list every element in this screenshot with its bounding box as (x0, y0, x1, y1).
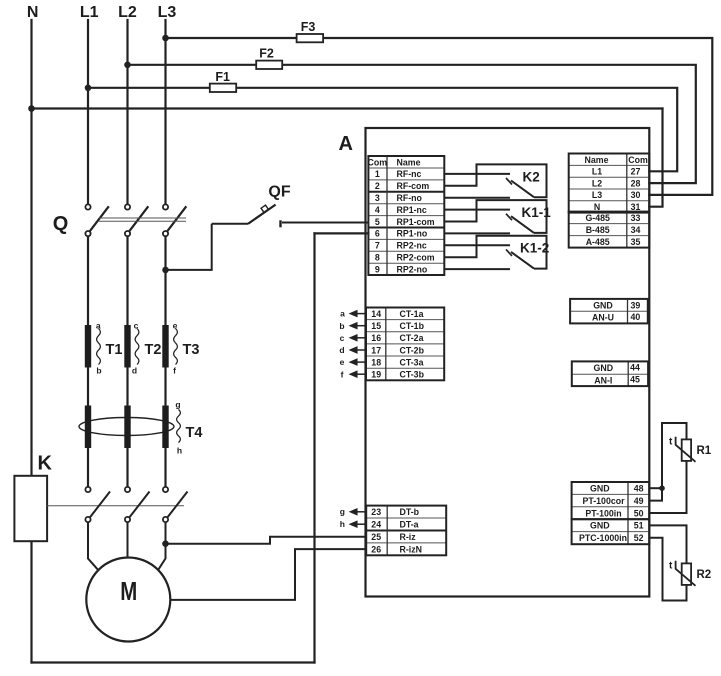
svg-text:2: 2 (375, 181, 380, 191)
DT input table 23-26 (366, 506, 446, 556)
svg-text:14: 14 (371, 309, 381, 319)
svg-text:RP2-nc: RP2-nc (397, 241, 427, 251)
wire L3 T3 to T4 (164, 368, 166, 407)
svg-text:1: 1 (375, 169, 380, 179)
svg-text:L1: L1 (80, 4, 99, 21)
svg-text:5: 5 (375, 217, 380, 227)
wire RP1-no entry (315, 232, 369, 234)
wire L2 T4 to contactor (126, 448, 128, 487)
svg-text:49: 49 (634, 496, 644, 506)
svg-text:d: d (339, 345, 344, 355)
CT T1 primary bar (85, 325, 91, 368)
svg-text:a: a (96, 321, 101, 331)
node R1 junction (659, 485, 665, 491)
fuse F3 (297, 34, 324, 42)
svg-text:T2: T2 (145, 342, 162, 358)
wire N vertical top (30, 20, 32, 476)
PT-100 terminal table 48-50 (572, 482, 650, 519)
svg-text:GND: GND (590, 521, 610, 531)
svg-text:34: 34 (631, 225, 641, 235)
svg-text:R1: R1 (697, 445, 712, 457)
svg-text:RP2-no: RP2-no (397, 264, 428, 274)
wire F1 line (88, 88, 677, 172)
fuse F1 (210, 84, 236, 92)
svg-text:L2: L2 (118, 4, 137, 21)
switch QF (212, 205, 369, 228)
wire N to terminal 31 (649, 109, 662, 207)
wire R-iz (166, 537, 367, 544)
svg-text:Com: Com (628, 155, 648, 165)
contactor contact 1 (85, 487, 110, 522)
breaker Q linkage bar (99, 218, 186, 221)
svg-text:c: c (134, 321, 139, 331)
wire contactor to motor 1 (88, 522, 98, 570)
fuse F2 (256, 61, 282, 69)
svg-text:44: 44 (630, 363, 640, 373)
svg-text:e: e (340, 357, 345, 367)
mains terminal table 27-31 (569, 154, 650, 213)
svg-text:R-izN: R-izN (400, 544, 422, 554)
RS-485 terminal table 33-35 (569, 212, 650, 248)
contactor K coil box (14, 476, 47, 541)
svg-text:30: 30 (631, 190, 641, 200)
CT T4 bar 2 (124, 406, 130, 449)
svg-text:M: M (120, 576, 137, 606)
svg-text:RF-com: RF-com (397, 181, 430, 191)
svg-text:N: N (27, 4, 39, 21)
svg-text:B-485: B-485 (586, 225, 610, 235)
svg-text:PT-100in: PT-100in (585, 508, 621, 518)
node N junction (28, 105, 35, 112)
svg-text:CT-2a: CT-2a (400, 333, 424, 343)
breaker Q pole 3 (163, 204, 186, 236)
wire L2 vertical (126, 20, 128, 204)
svg-text:AN-U: AN-U (592, 313, 614, 323)
svg-text:L2: L2 (592, 178, 602, 188)
svg-text:51: 51 (634, 521, 644, 531)
node L2-F2 junction (124, 62, 131, 69)
thermistor R2 (682, 563, 691, 585)
CT input table 14-19 (366, 308, 444, 381)
CT T1 secondary coil (97, 329, 101, 365)
node L3 tap junction (162, 267, 169, 274)
svg-text:RP1-no: RP1-no (397, 229, 428, 239)
svg-text:F1: F1 (215, 70, 230, 84)
svg-text:g: g (175, 400, 180, 410)
svg-text:Name: Name (397, 157, 421, 167)
svg-text:PT-100cor: PT-100cor (582, 496, 625, 506)
motor M (86, 558, 170, 642)
svg-text:RP1-nc: RP1-nc (397, 205, 427, 215)
svg-text:RP2-com: RP2-com (397, 253, 435, 263)
svg-text:7: 7 (375, 241, 380, 251)
svg-text:50: 50 (634, 508, 644, 518)
svg-text:48: 48 (634, 484, 644, 494)
AN-I terminal table 44-45 (572, 361, 648, 386)
CT T4 secondary coil (177, 410, 181, 443)
svg-text:Com: Com (368, 157, 388, 167)
svg-text:QF: QF (268, 184, 290, 201)
svg-text:L3: L3 (158, 4, 177, 21)
wire R-izN (171, 549, 367, 600)
relay contact K2 (444, 164, 546, 197)
svg-text:G-485: G-485 (585, 213, 610, 223)
svg-text:N: N (594, 202, 600, 212)
svg-text:DT-a: DT-a (400, 520, 419, 530)
CT T2 primary bar (124, 325, 130, 368)
svg-text:52: 52 (634, 533, 644, 543)
wire GND51 to R2 (649, 525, 686, 563)
svg-text:6: 6 (375, 229, 380, 239)
CT T3 secondary coil (174, 329, 178, 365)
svg-text:16: 16 (371, 333, 381, 343)
svg-text:33: 33 (631, 213, 641, 223)
svg-text:f: f (341, 369, 344, 379)
svg-text:e: e (173, 321, 178, 331)
svg-text:RF-no: RF-no (397, 193, 423, 203)
svg-text:d: d (132, 365, 137, 375)
relay output table 1-9 (368, 156, 444, 275)
breaker Q pole 2 (125, 204, 148, 236)
svg-text:a: a (340, 309, 345, 319)
CT T3 primary bar (162, 325, 168, 368)
svg-text:h: h (177, 446, 182, 456)
svg-text:F2: F2 (259, 47, 274, 61)
svg-text:A: A (339, 133, 353, 155)
CT T4 ring (79, 418, 174, 436)
relay contact K1-1 (444, 200, 546, 233)
svg-text:CT-1b: CT-1b (400, 321, 425, 331)
CT T2 secondary coil (135, 329, 139, 365)
svg-text:40: 40 (631, 312, 641, 322)
wire L3 vertical (164, 20, 166, 204)
wire vertical to RP1-no (313, 233, 315, 662)
wire R1 to PT-100in (649, 461, 686, 513)
svg-text:23: 23 (371, 507, 381, 517)
svg-text:T1: T1 (106, 342, 123, 358)
wire PT-100cor to R1 (649, 423, 686, 501)
svg-text:RF-nc: RF-nc (397, 169, 422, 179)
wire L1 Q to T1 (87, 236, 89, 326)
svg-text:GND: GND (593, 301, 613, 311)
svg-text:Name: Name (585, 155, 609, 165)
svg-text:GND: GND (594, 363, 614, 373)
svg-text:T3: T3 (183, 342, 200, 358)
wire contactor to motor 2 (127, 522, 129, 557)
node L1-F1 junction (85, 85, 92, 92)
svg-text:17: 17 (371, 345, 381, 355)
wire L2 T2 to T4 (126, 368, 128, 407)
contactor K linkage (47, 505, 184, 507)
svg-text:R2: R2 (697, 569, 712, 581)
node L3-F3 junction (162, 35, 169, 42)
svg-text:c: c (340, 333, 345, 343)
svg-text:T4: T4 (186, 425, 203, 441)
svg-text:K: K (38, 453, 53, 475)
wire L1 T4 to contactor (87, 448, 89, 487)
wire QF to L3 tap (166, 224, 212, 270)
svg-text:19: 19 (371, 370, 381, 380)
svg-text:AN-I: AN-I (594, 375, 612, 385)
CT input arrows a-f (351, 311, 365, 377)
wire L1 vertical (87, 20, 89, 204)
contactor contact 3 (163, 487, 188, 522)
svg-text:K1-1: K1-1 (522, 205, 552, 220)
wire N horizontal (32, 107, 663, 109)
svg-text:h: h (340, 519, 345, 529)
wire bottom horizontal (32, 661, 315, 663)
svg-text:27: 27 (631, 167, 641, 177)
thermistor R1 (682, 439, 691, 461)
breaker Q pole 1 (85, 204, 108, 236)
relay contact K1-2 (444, 236, 546, 269)
svg-text:8: 8 (375, 253, 380, 263)
svg-text:f: f (173, 365, 176, 375)
DT input arrows g h (351, 509, 365, 527)
svg-text:26: 26 (371, 544, 381, 554)
svg-text:28: 28 (631, 178, 641, 188)
wire GND48 to R1 (649, 487, 662, 489)
svg-text:Q: Q (53, 213, 69, 235)
CT T4 bar 1 (85, 406, 91, 449)
wire R2 to PTC-1000in (649, 538, 686, 601)
svg-text:K2: K2 (523, 169, 540, 184)
wire N vertical below K (30, 541, 32, 662)
svg-text:35: 35 (631, 237, 641, 247)
svg-text:CT-3b: CT-3b (400, 370, 425, 380)
AN-U terminal table 39-40 (570, 299, 648, 324)
svg-text:25: 25 (371, 532, 381, 542)
node motor R-iz junction (162, 540, 169, 547)
svg-text:CT-3a: CT-3a (400, 357, 424, 367)
svg-text:9: 9 (375, 264, 380, 274)
wire L1 T1 to T4 (87, 368, 89, 407)
svg-text:24: 24 (371, 520, 381, 530)
PTC-1000 terminal table 51-52 (572, 519, 650, 544)
svg-text:CT-2b: CT-2b (400, 345, 425, 355)
device A box (366, 128, 650, 597)
wire L2 Q to T2 (126, 236, 128, 326)
svg-text:RP1-com: RP1-com (397, 217, 435, 227)
svg-text:L1: L1 (592, 167, 602, 177)
svg-text:18: 18 (371, 357, 381, 367)
svg-text:39: 39 (631, 301, 641, 311)
wire contactor to motor 3 (158, 522, 165, 570)
wire F3 line (166, 38, 713, 195)
CT T4 bar 3 (162, 406, 168, 449)
svg-text:DT-b: DT-b (400, 507, 420, 517)
svg-text:15: 15 (371, 321, 381, 331)
svg-text:3: 3 (375, 193, 380, 203)
svg-text:A-485: A-485 (586, 237, 610, 247)
svg-text:CT-1a: CT-1a (400, 309, 424, 319)
svg-text:b: b (96, 365, 101, 375)
svg-text:g: g (340, 506, 345, 516)
svg-text:L3: L3 (592, 190, 602, 200)
svg-text:GND: GND (590, 484, 610, 494)
svg-text:b: b (339, 321, 344, 331)
svg-text:F3: F3 (301, 20, 316, 34)
wire L3 T4 to contactor (164, 448, 166, 487)
svg-text:31: 31 (631, 202, 641, 212)
svg-text:PTC-1000in: PTC-1000in (579, 533, 627, 543)
svg-text:R-iz: R-iz (400, 532, 417, 542)
wire F2 line (128, 65, 696, 183)
wire L3 Q to T3 (164, 236, 166, 326)
svg-text:45: 45 (630, 374, 640, 384)
contactor contact 2 (125, 487, 150, 522)
svg-text:4: 4 (375, 205, 380, 215)
svg-text:K1-2: K1-2 (520, 241, 549, 256)
